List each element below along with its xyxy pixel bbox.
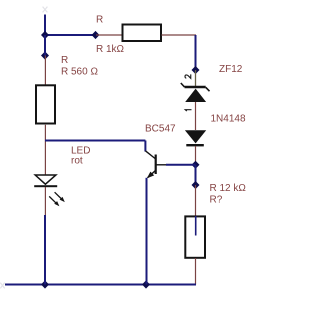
svg-text:R?: R? xyxy=(210,195,223,206)
ground rail wire xyxy=(5,284,196,286)
junction node R12k top xyxy=(192,181,200,189)
LED cathode bar xyxy=(34,185,57,187)
faded endpoint marker of ground rail xyxy=(0,283,4,289)
wire junction to R12k xyxy=(195,185,197,216)
transistor Q1 BC547 collector diagonal xyxy=(145,151,155,159)
svg-text:R: R xyxy=(96,15,103,26)
junction node below VCC xyxy=(41,51,49,59)
svg-text:R 560 Ω: R 560 Ω xyxy=(61,67,98,78)
wire R560 top pin xyxy=(44,56,46,86)
wire diode cathode to collector node xyxy=(195,146,197,165)
svg-text:R 12 kΩ: R 12 kΩ xyxy=(210,183,247,194)
svg-text:ZF12: ZF12 xyxy=(219,64,243,75)
wire stub inside R12k xyxy=(195,216,197,236)
junction node emitter on rail xyxy=(142,280,150,288)
pin number 2 of zener xyxy=(185,74,191,78)
LED symbol triangle xyxy=(35,175,56,184)
wire pin stub into R 1k left xyxy=(96,34,123,36)
junction node LED net on rail xyxy=(41,280,49,288)
wire between the two junctions xyxy=(195,165,197,185)
svg-text:R: R xyxy=(61,55,68,66)
junction node collector/base net xyxy=(192,161,200,169)
svg-text:BC547: BC547 xyxy=(145,124,176,135)
wire LED cathode stub xyxy=(44,187,46,215)
wire zener cathode pin stub xyxy=(195,70,197,86)
wire base net horizontal xyxy=(45,140,145,142)
wire corner down to zener node xyxy=(195,35,197,70)
junction node VCC xyxy=(41,31,49,39)
wire emitter to rail xyxy=(146,178,148,285)
LED emission arrow 1 xyxy=(55,192,65,202)
wire supply input top xyxy=(44,15,46,37)
transistor base lead black xyxy=(156,164,167,166)
pin number 1 of zener xyxy=(185,110,191,111)
LED emission arrow 2 xyxy=(49,196,59,206)
wire top horizontal VCC to 1k xyxy=(45,34,96,36)
svg-text:rot: rot xyxy=(71,156,83,167)
wire from R1k right to corner xyxy=(162,34,197,36)
transistor emitter arrow head xyxy=(147,172,154,179)
wire between zener anode and diode anode xyxy=(195,102,197,130)
svg-text:1N4148: 1N4148 xyxy=(211,114,246,125)
transistor emitter diagonal xyxy=(148,170,156,177)
resistor R 1kΩ body xyxy=(123,25,162,42)
resistor R 12k body xyxy=(185,216,205,257)
faded endpoint marker of supply wire xyxy=(43,7,48,13)
resistor R 560 body xyxy=(36,85,55,123)
wire LED net down to rail xyxy=(44,215,46,285)
junction node at R1k pin xyxy=(92,31,100,39)
wire R12k bottom to ground rail xyxy=(195,258,197,285)
zener diode ZF12 symbol xyxy=(181,83,210,102)
wire VCC dot to R560 dot xyxy=(44,35,46,56)
wire base lead to junction xyxy=(166,164,196,166)
wire R560 bottom to LED anode xyxy=(44,125,46,176)
wire base net vertical into transistor xyxy=(144,141,146,152)
diode 1N4148 symbol xyxy=(185,130,206,146)
transistor base bar xyxy=(155,155,157,175)
junction node zener cathode xyxy=(192,66,200,74)
svg-text:R 1kΩ: R 1kΩ xyxy=(96,44,125,55)
